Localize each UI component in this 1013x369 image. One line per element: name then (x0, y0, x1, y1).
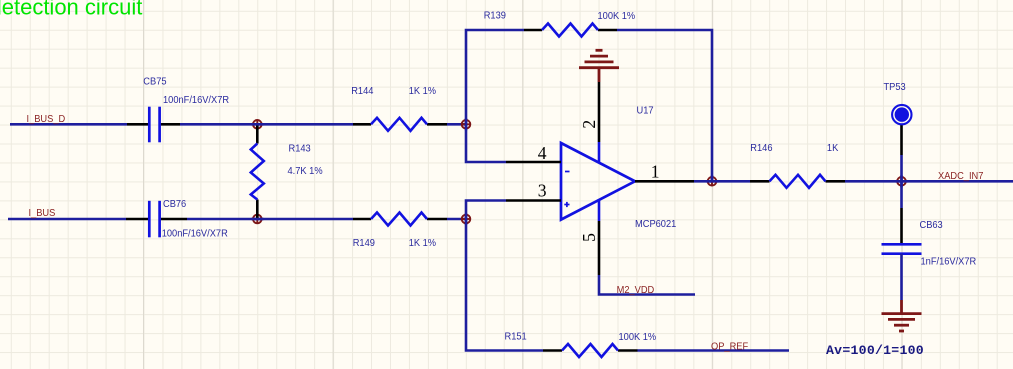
label CB75 (143, 76, 166, 87)
svg-text:R151: R151 (505, 331, 527, 342)
label TP53 (884, 82, 906, 93)
wire CB75 to R144 (180, 123, 353, 126)
svg-text:I_BUS_D: I_BUS_D (27, 114, 66, 125)
value 100nF/16V/X7R (CB75) (163, 95, 229, 106)
junction at node A (461, 118, 471, 130)
label R139 (484, 10, 506, 21)
label U17 (637, 105, 654, 116)
pin 5 of U17 (579, 199, 599, 275)
resistor R149 (353, 213, 447, 226)
svg-text:1nF/16V/X7R: 1nF/16V/X7R (921, 256, 977, 267)
value 1K 1% (R149) (409, 238, 437, 249)
svg-text:TP53: TP53 (884, 82, 906, 93)
junction at R143 top (251, 119, 263, 129)
wire R149 to node B (447, 218, 466, 221)
svg-text:CB76: CB76 (163, 199, 186, 210)
svg-text:1: 1 (651, 161, 660, 181)
wire node B down to R151 (466, 219, 543, 351)
wire I_BUS_D horizontal (10, 123, 127, 126)
label R151 (505, 331, 527, 342)
net label OP_REF (711, 341, 748, 352)
pin 4 of U17 (506, 143, 561, 163)
label MCP6021 (635, 219, 676, 230)
svg-text:U17: U17 (637, 105, 654, 116)
wire CB76 to R149 (187, 218, 353, 221)
svg-text:XADC_IN7: XADC_IN7 (938, 171, 983, 182)
label R146 (750, 143, 772, 154)
svg-text:CB75: CB75 (143, 76, 166, 87)
value 100nF/16V/X7R (CB76) (162, 228, 228, 239)
svg-text:R139: R139 (484, 10, 506, 21)
major grid lines (144, 0, 902, 369)
capacitor CB75 (127, 107, 180, 143)
junction at node B (461, 213, 471, 225)
ground (CB63) (882, 300, 922, 331)
label R144 (351, 86, 374, 97)
value 100K 1% (R151) (619, 332, 657, 343)
junction at R143 bottom (251, 214, 263, 224)
capacitor CB76 (126, 201, 187, 238)
svg-text:detection circuit: detection circuit (0, 0, 142, 20)
wire R144 to node A (447, 123, 466, 126)
label CB63 (920, 220, 943, 231)
svg-text:MCP6021: MCP6021 (635, 219, 676, 230)
svg-text:4: 4 (538, 143, 547, 163)
net label M2_VDD (617, 285, 655, 296)
resistor R146 (750, 175, 845, 188)
pin 3 of U17 (506, 180, 561, 200)
svg-text:Av=100/1=100: Av=100/1=100 (826, 343, 924, 358)
value 100K 1% (R139) (598, 11, 636, 22)
value 1K 1% (R144) (409, 86, 437, 97)
pin 1 of U17 (635, 161, 694, 181)
wire I_BUS horizontal (8, 218, 126, 221)
wire feedback right vertical (617, 30, 712, 181)
svg-text:1K: 1K (827, 143, 839, 154)
wire M2_VDD (599, 275, 695, 295)
svg-text:I_BUS: I_BUS (29, 208, 56, 219)
svg-text:R144: R144 (351, 86, 374, 97)
resistor R151 (543, 344, 638, 357)
svg-text:2: 2 (579, 120, 599, 129)
net label XADC_IN7 (938, 171, 983, 182)
ground (inverted, pin 2) (579, 50, 619, 82)
junction at output node (706, 175, 718, 186)
svg-text:100nF/16V/X7R: 100nF/16V/X7R (163, 95, 229, 106)
annotation Av=100/1=100 (826, 343, 924, 358)
wire R151 to OP_REF (638, 349, 790, 352)
svg-text:1K 1%: 1K 1% (409, 238, 437, 249)
svg-text:M2_VDD: M2_VDD (617, 285, 655, 296)
svg-text:3: 3 (538, 180, 547, 200)
resistor R143 (251, 124, 264, 219)
wire feedback left vertical (466, 30, 524, 124)
label R143 (289, 143, 311, 154)
capacitor CB63 (882, 181, 922, 300)
svg-text:R149: R149 (353, 238, 375, 249)
wire pin1 to R146 (694, 180, 750, 183)
resistor R144 (353, 118, 447, 131)
svg-text:OP_REF: OP_REF (711, 341, 748, 352)
label CB76 (163, 199, 186, 210)
svg-text:R143: R143 (289, 143, 311, 154)
op-amp U17 (561, 143, 635, 220)
resistor R139 (524, 24, 617, 37)
pin 2 of U17 (579, 82, 599, 163)
wire node B to pin 3 (466, 201, 506, 220)
svg-text:4.7K 1%: 4.7K 1% (288, 166, 324, 177)
value 1nF/16V/X7R (CB63) (921, 256, 977, 267)
wire node A to pin 4 (466, 124, 506, 162)
value 1K (R146) (827, 143, 839, 154)
svg-text:1K 1%: 1K 1% (409, 86, 437, 97)
net label I_BUS_D (27, 114, 66, 125)
svg-text:100K 1%: 100K 1% (619, 332, 657, 343)
svg-text:CB63: CB63 (920, 220, 943, 231)
value 4.7K 1% (R143) (288, 166, 324, 177)
net label I_BUS (29, 208, 56, 219)
wire R146 to XADC_IN7 (845, 180, 1013, 183)
title text: detection circuit (0, 0, 142, 20)
svg-text:R146: R146 (750, 143, 772, 154)
svg-text:100K 1%: 100K 1% (598, 11, 636, 22)
test point TP53 (892, 105, 911, 181)
svg-text:5: 5 (579, 233, 599, 242)
label R149 (353, 238, 375, 249)
svg-text:100nF/16V/X7R: 100nF/16V/X7R (162, 228, 228, 239)
junction at XADC node (896, 175, 908, 187)
